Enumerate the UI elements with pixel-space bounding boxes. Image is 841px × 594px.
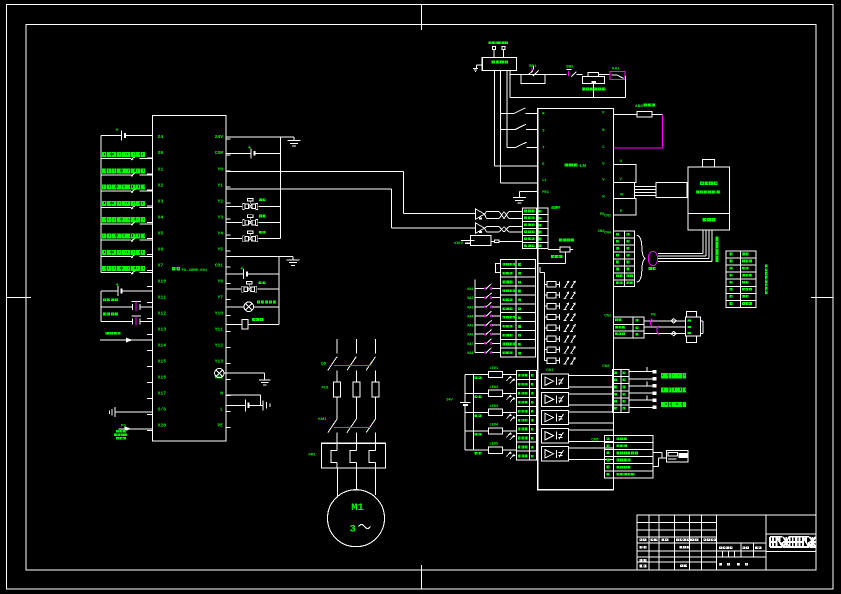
svg-text:FU1: FU1	[322, 386, 329, 390]
svg-text:KA8: KA8	[467, 352, 473, 356]
svg-text:Y5: Y5	[217, 246, 223, 252]
svg-text:24V: 24V	[215, 134, 224, 140]
svg-text:SB2: SB2	[566, 64, 573, 68]
svg-text:Y4: Y4	[217, 230, 223, 236]
svg-text:X14: X14	[158, 343, 167, 349]
svg-text:X15: X15	[158, 359, 167, 365]
svg-text:Y0: Y0	[217, 166, 223, 172]
svg-text:ABS: ABS	[635, 104, 643, 108]
svg-text:+: +	[240, 266, 243, 272]
svg-text:Y13: Y13	[215, 359, 224, 365]
svg-text:3: 3	[350, 524, 356, 536]
svg-text:Y12: Y12	[215, 343, 224, 349]
svg-text:CN2: CN2	[604, 214, 611, 218]
svg-text:M1: M1	[351, 502, 364, 514]
svg-text:LED4: LED4	[490, 423, 499, 427]
svg-text:KA1: KA1	[612, 67, 620, 71]
svg-text:Y11: Y11	[215, 327, 224, 333]
svg-text:CN1: CN1	[546, 368, 553, 372]
svg-text:L1: L1	[542, 179, 547, 183]
svg-text:Y3: Y3	[217, 214, 223, 220]
svg-text:X13: X13	[158, 327, 167, 333]
svg-text:LED3: LED3	[490, 405, 499, 409]
svg-text:X4: X4	[158, 214, 164, 220]
svg-text:X5: X5	[158, 230, 164, 236]
svg-text:KA7: KA7	[467, 343, 473, 347]
svg-text:X11: X11	[158, 295, 167, 301]
svg-text:Y10: Y10	[215, 311, 224, 317]
svg-text:CO1: CO1	[215, 262, 224, 268]
svg-text:Y2: Y2	[217, 198, 223, 204]
svg-text:KA2: KA2	[467, 297, 473, 301]
svg-text:KA4: KA4	[467, 315, 473, 319]
svg-text:LED2: LED2	[490, 386, 499, 390]
svg-text:U: U	[620, 159, 623, 163]
svg-text:SB1: SB1	[529, 64, 536, 68]
svg-text:X2: X2	[158, 182, 164, 188]
svg-text:PE: PE	[217, 423, 223, 429]
svg-text:Y7: Y7	[217, 295, 223, 301]
svg-text:KA6: KA6	[467, 334, 473, 338]
svg-text:24: 24	[158, 134, 164, 140]
svg-text:CN3: CN3	[602, 364, 609, 368]
svg-text:N: N	[220, 391, 223, 397]
svg-text:+: +	[115, 128, 118, 134]
svg-text:X6: X6	[158, 246, 164, 252]
svg-text:KM1: KM1	[318, 417, 326, 421]
svg-text:COM: COM	[552, 206, 561, 210]
svg-text:QS: QS	[321, 362, 327, 366]
svg-text:COM: COM	[215, 150, 224, 156]
svg-text:X1: X1	[158, 166, 164, 172]
svg-text:W: W	[620, 193, 624, 197]
svg-text:FR1: FR1	[309, 453, 316, 457]
svg-text:CN2: CN2	[604, 313, 611, 317]
svg-text:Y1: Y1	[217, 182, 223, 188]
svg-text:LED1: LED1	[490, 367, 499, 371]
svg-text:X10: X10	[158, 278, 167, 284]
svg-text:S/S: S/S	[158, 407, 167, 413]
svg-text:Y6: Y6	[217, 278, 223, 284]
svg-text:X3: X3	[158, 198, 164, 204]
svg-text:X7: X7	[158, 262, 164, 268]
svg-text:CN5: CN5	[591, 438, 598, 442]
svg-text:X20: X20	[158, 423, 167, 429]
svg-text:KA1: KA1	[467, 288, 473, 292]
svg-text:KA5: KA5	[467, 325, 473, 329]
svg-text:PE1: PE1	[542, 191, 550, 195]
svg-text:X17: X17	[158, 391, 167, 397]
svg-text:PE: PE	[651, 312, 656, 316]
svg-text:X0: X0	[158, 150, 164, 156]
svg-text:X16: X16	[158, 375, 167, 381]
svg-text:KA3: KA3	[467, 306, 473, 310]
svg-text:+: +	[116, 283, 119, 289]
svg-text:LED5: LED5	[490, 443, 499, 447]
svg-text:+: +	[248, 145, 251, 151]
svg-text:-LM: -LM	[579, 163, 587, 168]
svg-text:PG: PG	[121, 423, 126, 427]
svg-text:FX-48MR-001: FX-48MR-001	[182, 269, 208, 273]
svg-text:24V: 24V	[446, 398, 453, 402]
svg-text:L: L	[220, 407, 223, 413]
svg-text:CN4: CN4	[604, 231, 611, 235]
svg-text:X12: X12	[158, 311, 167, 317]
